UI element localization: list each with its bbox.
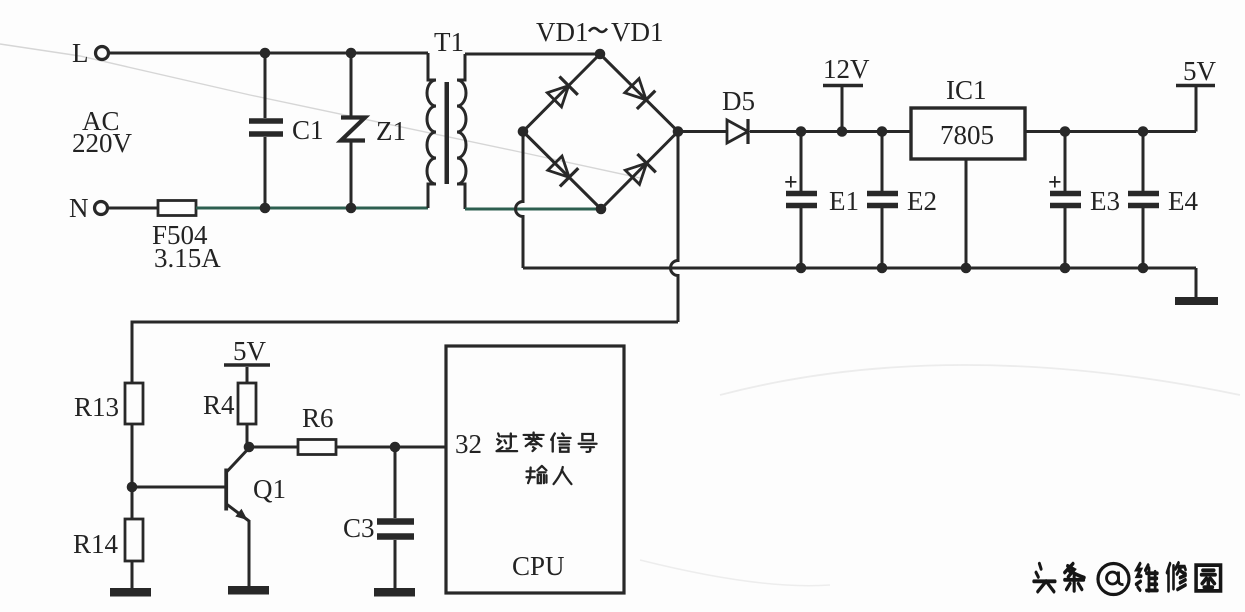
bridge edge SE	[601, 132, 678, 210]
ground right	[1175, 268, 1218, 305]
wire R13 to base node	[131, 424, 134, 519]
resistor R6	[298, 440, 336, 455]
svg-text:12V: 12V	[823, 54, 870, 84]
capacitor E3	[1050, 194, 1081, 206]
svg-text:E3: E3	[1090, 186, 1120, 216]
capacitor E2	[867, 194, 898, 206]
svg-text:220V: 220V	[72, 128, 133, 158]
wire C3 top lead	[394, 447, 397, 518]
svg-text:E2: E2	[907, 186, 937, 216]
capacitor E4	[1128, 194, 1159, 206]
node E4 bottom	[1138, 263, 1149, 274]
wire C1 top lead	[264, 53, 267, 118]
wire to zero-cross divider	[132, 322, 678, 383]
ground under Q1 emitter	[228, 586, 269, 595]
transformer T1 core	[445, 82, 450, 184]
capacitor E2 leads	[881, 132, 884, 269]
capacitor E3 leads	[1064, 132, 1067, 269]
bridge edge NE	[600, 54, 678, 132]
svg-text:L: L	[72, 38, 89, 68]
wire R4 to collector node	[246, 424, 249, 447]
svg-text:5V: 5V	[1183, 56, 1217, 86]
svg-text:T1: T1	[434, 27, 464, 57]
node IC1 gnd bottom	[961, 263, 972, 274]
capacitor E1	[786, 194, 817, 206]
svg-text:R6: R6	[302, 403, 334, 433]
node E2 top	[877, 126, 888, 137]
node base	[127, 482, 138, 493]
diode VD1 (NW arm)	[547, 77, 578, 107]
wire bridge right node down with hop over negative rail	[671, 132, 679, 323]
wire negative rail	[523, 267, 1196, 270]
wire IC1 output	[1025, 130, 1196, 133]
node E1 top	[796, 126, 807, 137]
ground under R14	[110, 588, 151, 597]
diode VD1 (SE arm)	[625, 154, 656, 184]
node Z1 top	[346, 48, 357, 59]
svg-text:IC1: IC1	[946, 75, 987, 105]
node C3 top	[390, 442, 401, 453]
wire R14 to ground	[131, 561, 134, 588]
ground under C3	[374, 588, 415, 597]
wire C3 to ground	[394, 540, 397, 588]
diode VD1 (SW arm)	[548, 156, 579, 186]
capacitor E1 leads	[800, 132, 803, 269]
svg-text:Q1: Q1	[253, 474, 286, 504]
node collector	[244, 442, 255, 453]
resistor R4	[238, 383, 256, 424]
power 5V symbol right	[1176, 86, 1215, 132]
wire N to fuse	[108, 207, 158, 210]
capacitor E4 leads	[1142, 132, 1145, 269]
node bridge top	[595, 49, 606, 60]
label 输入 (input)	[527, 466, 572, 484]
svg-text:+: +	[784, 170, 798, 196]
wire L rail top	[109, 52, 428, 55]
node C1 bottom	[260, 203, 271, 214]
power 12V symbol	[823, 86, 863, 132]
wire Z1 bottom lead	[350, 142, 353, 208]
transformer T1 secondary winding	[457, 54, 466, 209]
svg-text:5V: 5V	[233, 336, 267, 366]
resistor R14	[125, 519, 143, 561]
wire base	[132, 486, 225, 489]
node E2 bottom	[877, 263, 888, 274]
svg-text:R4: R4	[203, 390, 235, 420]
svg-text:C3: C3	[343, 513, 375, 543]
node C1 top	[260, 48, 271, 59]
svg-text:N: N	[69, 193, 89, 223]
capacitor C3	[377, 522, 414, 537]
svg-text:32: 32	[455, 429, 482, 459]
watermark 头条 @维修圈	[1034, 563, 1221, 592]
node E3 bottom	[1060, 263, 1071, 274]
wire secondary top to bridge	[465, 53, 600, 56]
svg-text:+: +	[1048, 170, 1062, 196]
fuse F504	[158, 201, 196, 216]
svg-text:R13: R13	[74, 392, 119, 422]
wire collector to R6	[249, 446, 298, 449]
terminal N	[95, 202, 108, 215]
svg-text:VD1: VD1	[611, 17, 664, 47]
node E3 top	[1060, 126, 1071, 137]
CPU box	[446, 346, 624, 593]
transformer T1 primary winding	[427, 53, 436, 208]
scan scratch artifact	[0, 44, 640, 178]
power 5V symbol for R4	[224, 365, 270, 383]
svg-text:CPU: CPU	[512, 551, 565, 581]
wire secondary bottom to bridge (AC)	[465, 208, 601, 211]
capacitor C1	[249, 121, 283, 134]
bridge edge NW	[523, 54, 600, 132]
wire R6 to CPU	[336, 446, 446, 449]
wire IC1 ground pin	[965, 159, 968, 268]
node E4 top	[1138, 126, 1149, 137]
svg-text:7805: 7805	[940, 120, 994, 150]
scan smudge	[640, 560, 830, 586]
regulator IC1 box	[911, 108, 1025, 159]
svg-text:D5: D5	[722, 86, 755, 116]
svg-text:Z1: Z1	[376, 116, 406, 146]
wire C1 bottom lead	[264, 137, 267, 208]
varistor Z1	[341, 118, 365, 141]
transistor Q1	[224, 448, 249, 586]
diode D5	[727, 119, 748, 144]
watermark @	[1098, 564, 1129, 595]
svg-text:VD1: VD1	[536, 17, 589, 47]
svg-text:E4: E4	[1168, 186, 1198, 216]
node 12V stem	[837, 126, 848, 137]
svg-text:E1: E1	[829, 186, 859, 216]
node bridge bottom	[596, 204, 607, 215]
node bridge left	[518, 126, 529, 137]
terminal L	[96, 47, 109, 60]
wire bridge right to D5	[678, 130, 727, 133]
resistor R13	[125, 383, 143, 424]
wire bridge left node down with hop over AC wire	[516, 132, 524, 269]
node Z1 bottom	[346, 203, 357, 214]
node E1 bottom	[796, 263, 807, 274]
svg-text:R14: R14	[73, 529, 119, 559]
svg-text:3.15A: 3.15A	[154, 243, 221, 273]
wire N rail (fuse to transformer primary)	[196, 207, 428, 210]
label 过零信号 (zero-cross signal)	[497, 432, 597, 451]
diode VD1 (NE arm)	[625, 79, 656, 109]
wire Z1 top lead	[350, 53, 353, 116]
scan smudge	[720, 365, 1240, 395]
bridge edge SW	[523, 132, 601, 210]
wire D5 to IC1	[750, 130, 911, 133]
node bridge right	[673, 126, 684, 137]
svg-text:C1: C1	[292, 115, 324, 145]
